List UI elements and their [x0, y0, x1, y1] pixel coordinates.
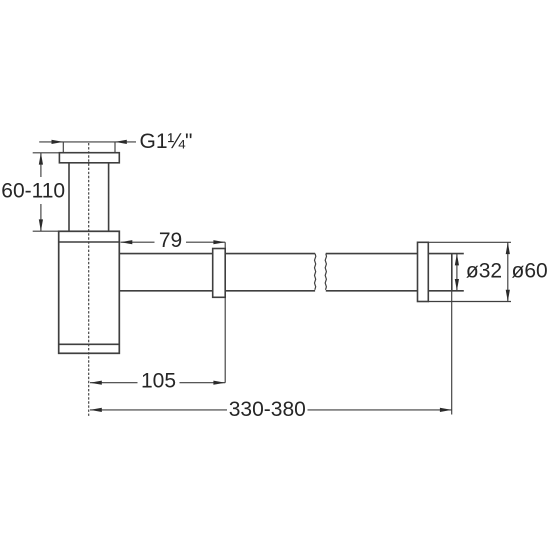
inlet flange	[59, 153, 119, 163]
text mask 105	[138, 372, 180, 391]
trap body lid joint line	[59, 241, 120, 243]
outlet pipe end bottom wall	[428, 290, 464, 292]
text mask 60-110	[0, 177, 68, 204]
dimension line 60-110	[40, 153, 42, 231]
pipe break jag right	[325, 254, 326, 290]
arrow 330-380 left	[90, 408, 102, 412]
trap body bottom cap line	[59, 343, 120, 345]
arrow 105 right	[213, 381, 225, 385]
dimension line G1 1/4	[39, 141, 136, 143]
dimension line dia 32	[456, 254, 458, 291]
arrow 79 left	[121, 240, 133, 244]
arrow dia32 down	[455, 279, 459, 291]
arrow 79 right	[213, 240, 225, 244]
svg-text:ø60: ø60	[512, 260, 548, 283]
svg-text:ø32: ø32	[466, 260, 502, 283]
text mask 79	[155, 233, 187, 249]
svg-text:330-380: 330-380	[229, 398, 306, 421]
inlet tailpipe	[69, 163, 109, 232]
arrow G right	[115, 140, 127, 144]
outlet pipe segment 1 top wall	[119, 253, 315, 255]
pipe break jag left	[315, 254, 316, 290]
arrow G left	[52, 140, 64, 144]
outlet pipe end top wall	[428, 253, 464, 255]
text mask 330-380	[227, 400, 308, 419]
extension line dia 60 top	[428, 241, 511, 243]
outlet pipe segment 2 top wall	[326, 253, 418, 255]
arrow 105 left	[90, 381, 102, 385]
dimension line 105	[90, 382, 225, 384]
outlet pipe segment 2 bottom wall	[326, 290, 418, 292]
dimension line 79	[121, 241, 226, 243]
extension line G left	[62, 142, 64, 152]
arrow dia60 down	[506, 290, 510, 302]
arrow 330-380 right	[440, 408, 452, 412]
extension line 60-110 bottom	[33, 230, 59, 232]
arrow 60-110 down	[39, 219, 43, 231]
dimension line dia 60	[507, 242, 509, 301]
outlet pipe segment 1 bottom wall	[119, 290, 315, 292]
centerline vertical axis	[88, 143, 90, 416]
compression nut	[213, 249, 226, 298]
extension line nut	[224, 242, 226, 383]
svg-text:60-110: 60-110	[1, 180, 65, 203]
arrow dia32 up	[455, 254, 459, 266]
arrow 60-110 up	[39, 153, 43, 165]
extension line pipe end	[451, 291, 453, 415]
svg-text:79: 79	[159, 229, 182, 252]
outlet pipe open end	[451, 254, 453, 291]
extension line G right	[114, 142, 116, 152]
extension line 60-110 top	[33, 152, 60, 154]
wall flange	[418, 242, 429, 301]
svg-text:G1¼": G1¼"	[140, 130, 193, 153]
extension line dia 60 bottom	[428, 301, 511, 303]
svg-text:105: 105	[141, 370, 176, 393]
trap body cup	[59, 231, 120, 353]
arrow dia60 up	[506, 242, 510, 254]
dimension line 330-380	[90, 409, 452, 411]
